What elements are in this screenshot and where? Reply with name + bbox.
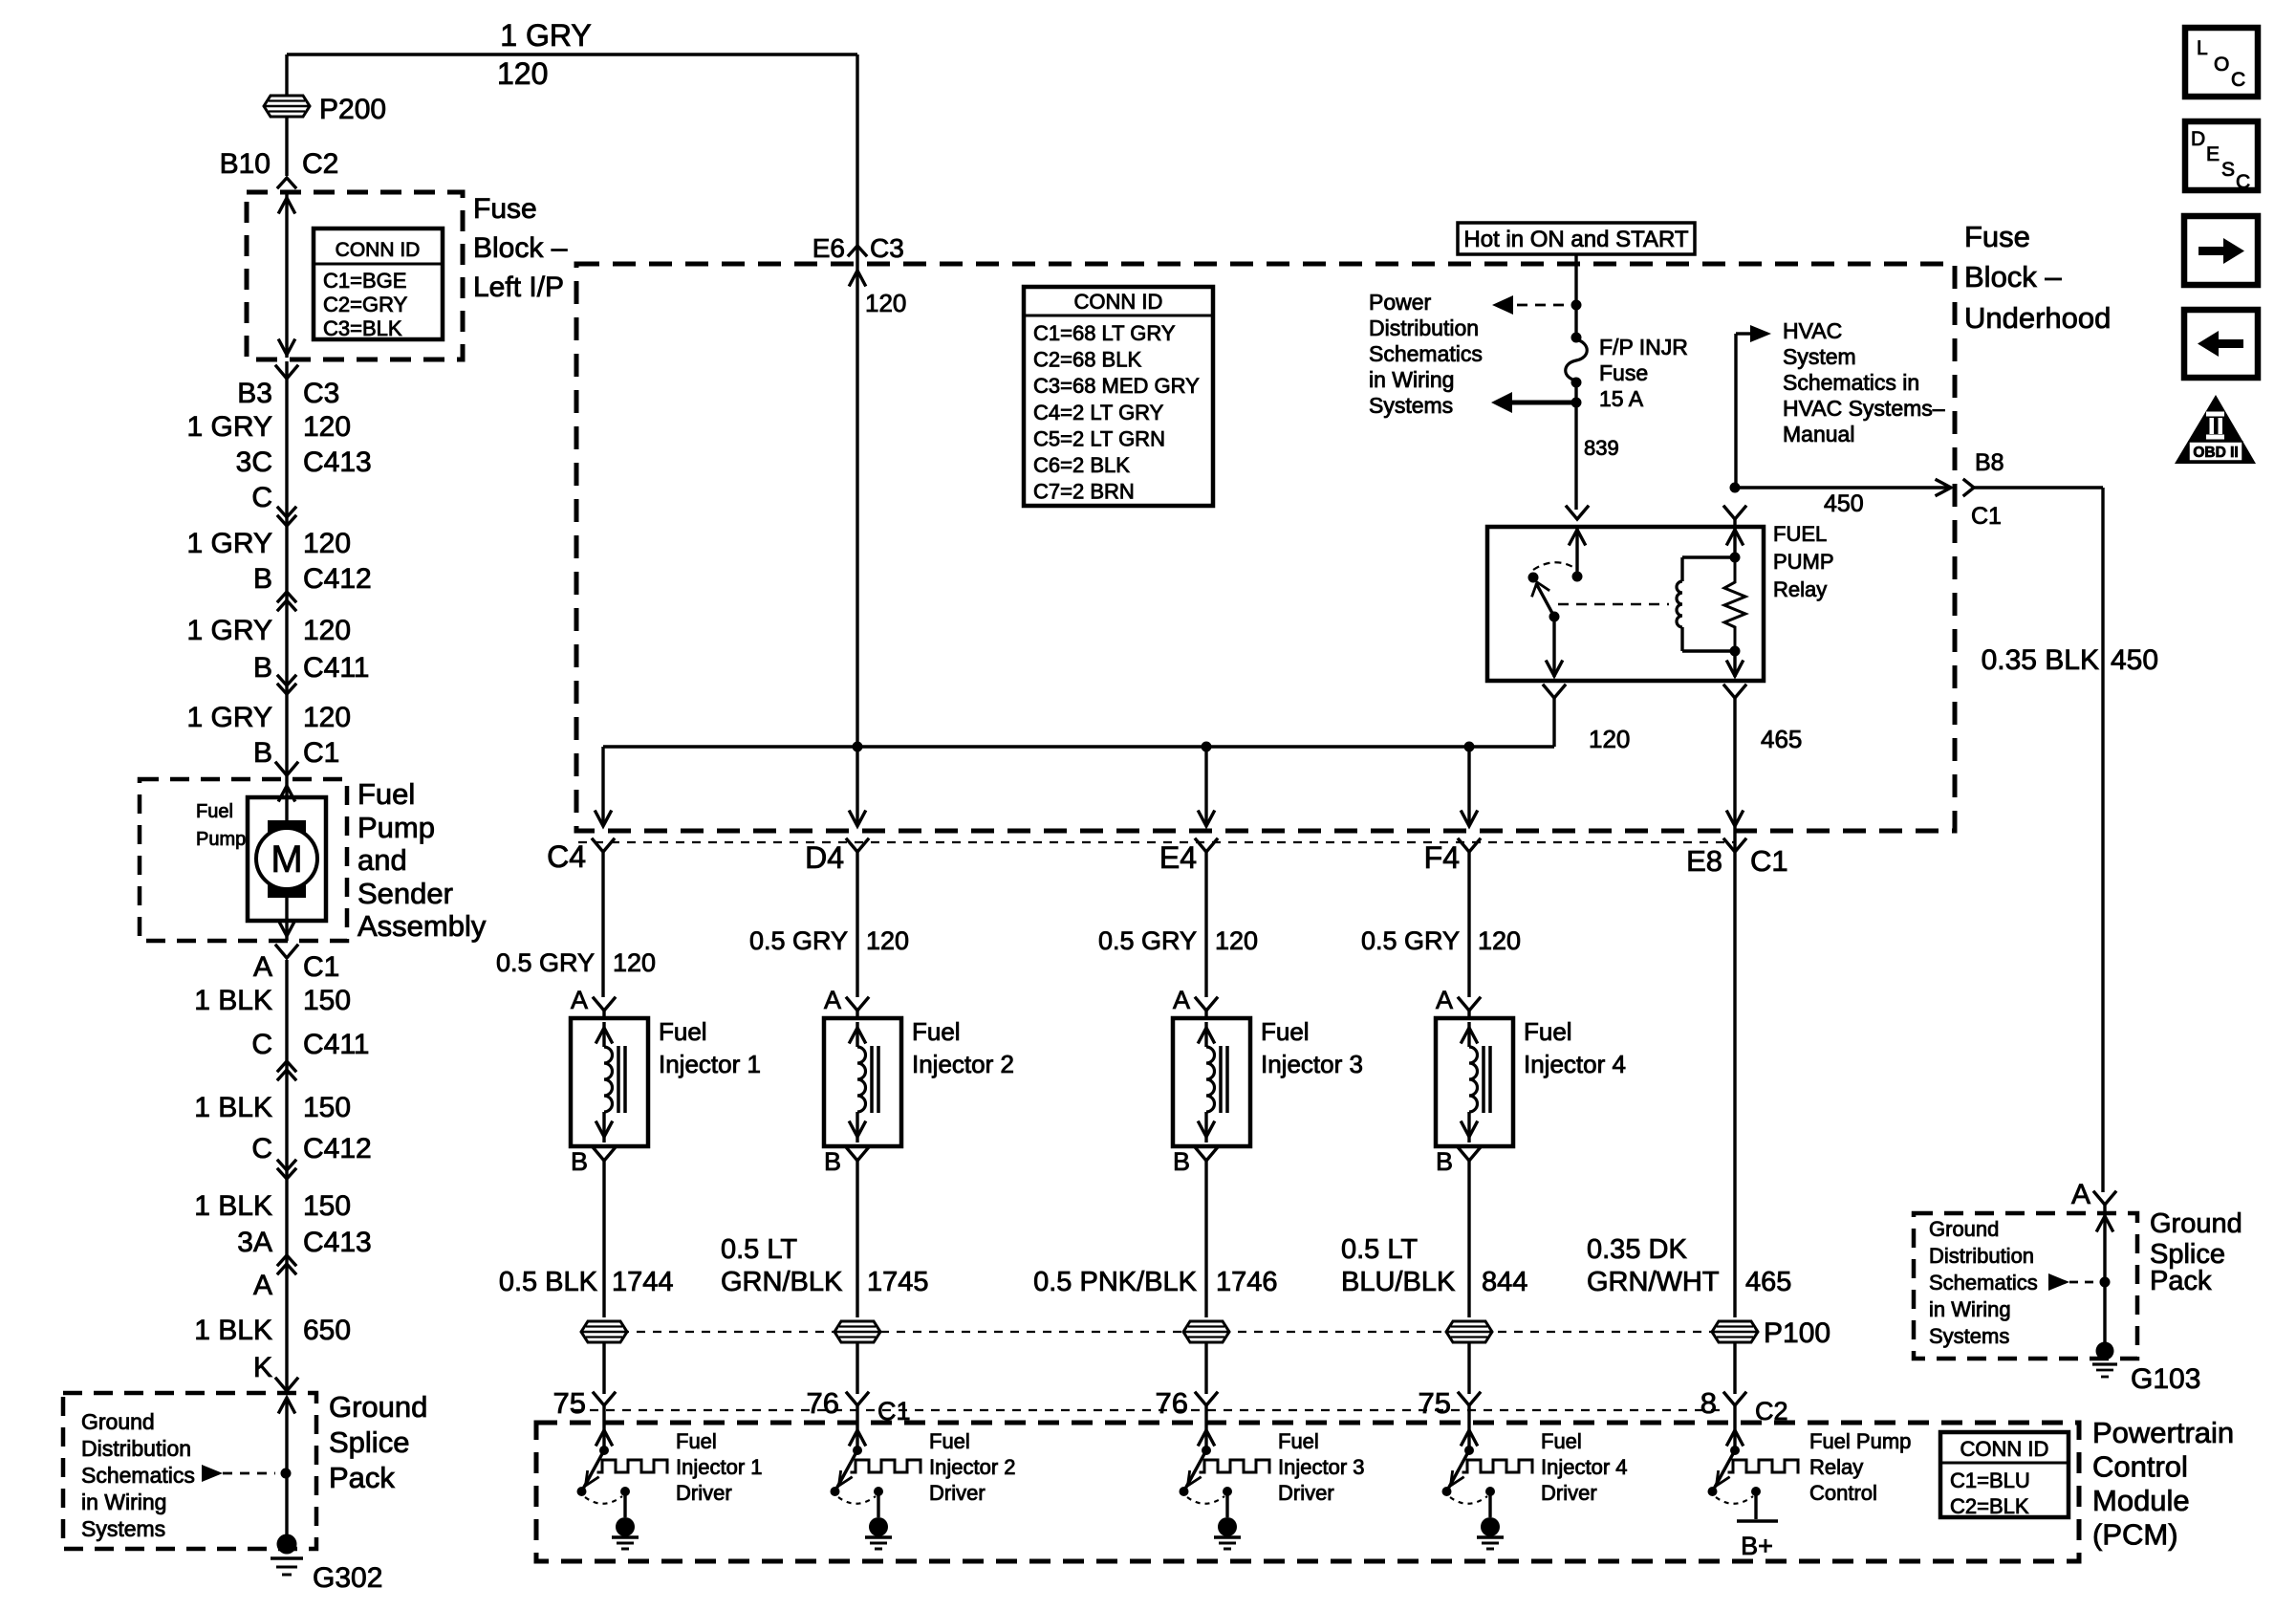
svg-text:S: S xyxy=(2221,159,2235,181)
svg-text:C3: C3 xyxy=(870,233,904,263)
svg-text:120: 120 xyxy=(1215,926,1258,955)
svg-text:1745: 1745 xyxy=(867,1267,929,1297)
svg-text:P200: P200 xyxy=(319,94,386,125)
svg-text:P100: P100 xyxy=(1764,1317,1830,1349)
svg-text:B: B xyxy=(571,1147,588,1176)
svg-text:75: 75 xyxy=(1419,1386,1451,1420)
svg-text:C413: C413 xyxy=(303,446,372,478)
svg-text:3C: 3C xyxy=(236,446,272,478)
svg-text:C3=68 MED GRY: C3=68 MED GRY xyxy=(1033,374,1200,398)
svg-text:Pump: Pump xyxy=(357,811,435,844)
svg-text:120: 120 xyxy=(865,289,906,317)
svg-text:Schematics: Schematics xyxy=(81,1463,195,1488)
svg-text:844: 844 xyxy=(1482,1267,1527,1297)
svg-text:1744: 1744 xyxy=(612,1267,674,1297)
svg-text:C1: C1 xyxy=(303,737,339,769)
svg-text:Pump: Pump xyxy=(196,829,246,850)
svg-text:E4: E4 xyxy=(1159,840,1197,875)
svg-text:G302: G302 xyxy=(313,1562,382,1594)
svg-text:C3=BLK: C3=BLK xyxy=(323,316,402,340)
svg-text:Injector 4: Injector 4 xyxy=(1541,1455,1628,1479)
svg-text:C411: C411 xyxy=(303,1029,370,1060)
svg-text:15 A: 15 A xyxy=(1599,386,1644,411)
svg-text:CONN ID: CONN ID xyxy=(1960,1437,2049,1461)
svg-text:B: B xyxy=(253,737,272,769)
svg-text:1 BLK: 1 BLK xyxy=(194,1190,272,1222)
svg-text:Schematics: Schematics xyxy=(1929,1271,2038,1295)
svg-text:450: 450 xyxy=(1824,490,1864,517)
svg-text:75: 75 xyxy=(553,1386,586,1420)
svg-text:450: 450 xyxy=(2111,644,2158,676)
svg-text:Distribution: Distribution xyxy=(1369,315,1479,340)
svg-text:F4: F4 xyxy=(1424,840,1460,875)
svg-text:465: 465 xyxy=(1745,1267,1791,1297)
svg-text:Driver: Driver xyxy=(676,1481,732,1505)
svg-text:Fuse: Fuse xyxy=(1599,360,1648,385)
svg-text:C6=2 BLK: C6=2 BLK xyxy=(1033,453,1130,477)
svg-text:B3: B3 xyxy=(237,378,272,409)
svg-text:Injector 1: Injector 1 xyxy=(659,1050,761,1078)
svg-text:150: 150 xyxy=(303,1190,351,1222)
svg-text:A: A xyxy=(1436,986,1453,1014)
svg-text:and: and xyxy=(357,843,407,877)
svg-text:76: 76 xyxy=(1156,1386,1188,1420)
svg-text:A: A xyxy=(253,1270,272,1301)
svg-text:120: 120 xyxy=(497,56,548,91)
svg-text:0.5 GRY: 0.5 GRY xyxy=(749,926,848,955)
svg-text:Control: Control xyxy=(1809,1481,1877,1505)
svg-text:3A: 3A xyxy=(237,1227,272,1258)
svg-text:Injector 2: Injector 2 xyxy=(929,1455,1016,1479)
svg-text:150: 150 xyxy=(303,1092,351,1123)
svg-text:0.5 GRY: 0.5 GRY xyxy=(1098,926,1197,955)
svg-text:Hot in ON and START: Hot in ON and START xyxy=(1463,227,1689,252)
svg-text:C412: C412 xyxy=(303,1133,372,1164)
svg-text:Pack: Pack xyxy=(2150,1266,2212,1296)
svg-text:C411: C411 xyxy=(303,652,370,684)
svg-text:B: B xyxy=(1436,1147,1453,1176)
svg-text:FUEL: FUEL xyxy=(1773,522,1827,546)
svg-text:C5=2 LT GRN: C5=2 LT GRN xyxy=(1033,426,1165,450)
svg-text:E8: E8 xyxy=(1686,844,1722,878)
svg-text:CONN ID: CONN ID xyxy=(1074,290,1163,314)
svg-text:Pack: Pack xyxy=(329,1461,395,1494)
svg-text:GRN/WHT: GRN/WHT xyxy=(1587,1267,1720,1297)
svg-text:BLU/BLK: BLU/BLK xyxy=(1341,1267,1456,1297)
svg-text:M: M xyxy=(271,838,302,881)
svg-text:150: 150 xyxy=(303,985,351,1016)
svg-text:0.5 GRY: 0.5 GRY xyxy=(496,948,595,977)
svg-text:1 GRY: 1 GRY xyxy=(187,528,273,559)
svg-text:C: C xyxy=(2236,171,2250,193)
svg-text:C3: C3 xyxy=(303,378,339,409)
svg-text:120: 120 xyxy=(866,926,909,955)
svg-text:Assembly: Assembly xyxy=(357,909,487,943)
svg-text:Ground: Ground xyxy=(329,1390,427,1424)
svg-text:1746: 1746 xyxy=(1216,1267,1278,1297)
svg-text:Driver: Driver xyxy=(1541,1481,1597,1505)
svg-text:Sender: Sender xyxy=(357,877,453,910)
svg-text:(PCM): (PCM) xyxy=(2092,1518,2178,1552)
svg-text:O: O xyxy=(2214,54,2229,76)
svg-text:Systems: Systems xyxy=(81,1516,165,1541)
svg-text:Driver: Driver xyxy=(929,1481,986,1505)
svg-text:C413: C413 xyxy=(303,1227,372,1258)
svg-text:in Wiring: in Wiring xyxy=(81,1490,166,1514)
svg-text:Injector 3: Injector 3 xyxy=(1261,1050,1363,1078)
svg-text:0.35 DK: 0.35 DK xyxy=(1587,1234,1687,1265)
svg-text:0.35 BLK: 0.35 BLK xyxy=(1982,644,2099,676)
svg-text:76: 76 xyxy=(807,1386,839,1420)
svg-text:E6: E6 xyxy=(812,233,845,263)
svg-text:B: B xyxy=(253,652,272,684)
svg-text:8: 8 xyxy=(1700,1386,1717,1420)
svg-text:1 GRY: 1 GRY xyxy=(187,615,273,646)
svg-text:0.5 BLK: 0.5 BLK xyxy=(499,1267,598,1297)
svg-text:C2: C2 xyxy=(302,148,338,180)
svg-text:120: 120 xyxy=(303,411,351,443)
svg-text:Injector 4: Injector 4 xyxy=(1524,1050,1626,1078)
svg-text:B: B xyxy=(253,563,272,595)
svg-text:K: K xyxy=(253,1352,272,1383)
svg-text:Module: Module xyxy=(2092,1484,2190,1517)
svg-text:C: C xyxy=(2231,69,2245,91)
svg-text:B8: B8 xyxy=(1975,449,2004,476)
svg-text:A: A xyxy=(824,986,841,1014)
svg-text:Fuel: Fuel xyxy=(659,1017,707,1046)
svg-text:B: B xyxy=(1173,1147,1190,1176)
svg-text:Fuel: Fuel xyxy=(1524,1017,1572,1046)
svg-text:1 GRY: 1 GRY xyxy=(500,18,591,53)
svg-text:Ground: Ground xyxy=(2150,1208,2242,1239)
svg-text:D4: D4 xyxy=(805,840,844,875)
svg-text:Schematics: Schematics xyxy=(1369,341,1483,366)
svg-text:Fuel: Fuel xyxy=(912,1017,961,1046)
svg-text:Fuse: Fuse xyxy=(1964,220,2030,253)
svg-text:Power: Power xyxy=(1369,290,1432,315)
svg-text:C: C xyxy=(251,482,272,513)
svg-text:120: 120 xyxy=(613,948,656,977)
svg-text:E: E xyxy=(2206,143,2220,165)
svg-text:Driver: Driver xyxy=(1278,1481,1334,1505)
svg-text:Injector 3: Injector 3 xyxy=(1278,1455,1365,1479)
svg-text:Distribution: Distribution xyxy=(1929,1244,2034,1268)
svg-text:Fuse: Fuse xyxy=(473,193,537,225)
svg-text:Fuel: Fuel xyxy=(1541,1429,1582,1453)
svg-text:C2=68 BLK: C2=68 BLK xyxy=(1033,348,1141,372)
svg-text:CONN ID: CONN ID xyxy=(336,239,421,261)
svg-text:Block –: Block – xyxy=(473,232,568,264)
svg-text:C7=2 BRN: C7=2 BRN xyxy=(1033,480,1135,504)
svg-text:Injector 2: Injector 2 xyxy=(912,1050,1014,1078)
svg-text:C1=68 LT GRY: C1=68 LT GRY xyxy=(1033,321,1176,345)
svg-text:839: 839 xyxy=(1584,436,1619,460)
svg-text:0.5 LT: 0.5 LT xyxy=(721,1234,797,1265)
svg-text:120: 120 xyxy=(1478,926,1521,955)
svg-text:Systems: Systems xyxy=(1929,1324,2009,1348)
svg-text:C412: C412 xyxy=(303,563,372,595)
svg-text:650: 650 xyxy=(303,1315,351,1346)
svg-text:Control: Control xyxy=(2092,1450,2188,1484)
svg-text:A: A xyxy=(2071,1179,2090,1210)
svg-text:Fuel: Fuel xyxy=(357,777,415,811)
svg-text:System: System xyxy=(1783,344,1856,369)
svg-text:Fuel: Fuel xyxy=(1278,1429,1319,1453)
svg-text:Systems: Systems xyxy=(1369,393,1453,418)
svg-text:Ground: Ground xyxy=(1929,1217,1999,1241)
svg-text:0.5 PNK/BLK: 0.5 PNK/BLK xyxy=(1033,1267,1198,1297)
svg-text:120: 120 xyxy=(303,528,351,559)
svg-text:Relay: Relay xyxy=(1773,577,1827,601)
svg-text:HVAC Systems–: HVAC Systems– xyxy=(1783,396,1945,421)
svg-text:Fuel: Fuel xyxy=(196,801,233,822)
svg-text:Ground: Ground xyxy=(81,1409,155,1434)
svg-text:120: 120 xyxy=(303,702,351,733)
svg-text:1 GRY: 1 GRY xyxy=(187,702,273,733)
svg-text:Relay: Relay xyxy=(1809,1455,1863,1479)
svg-text:Fuel: Fuel xyxy=(1261,1017,1310,1046)
svg-text:C1: C1 xyxy=(1750,844,1788,878)
svg-text:Schematics in: Schematics in xyxy=(1783,370,1919,395)
svg-text:Splice: Splice xyxy=(329,1425,409,1459)
svg-text:C1: C1 xyxy=(1971,503,2002,530)
svg-text:A: A xyxy=(1173,986,1190,1014)
svg-text:120: 120 xyxy=(1589,725,1630,753)
svg-text:1 BLK: 1 BLK xyxy=(194,1315,272,1346)
svg-text:Distribution: Distribution xyxy=(81,1436,191,1461)
svg-text:C4: C4 xyxy=(547,839,586,874)
svg-text:PUMP: PUMP xyxy=(1773,550,1834,574)
svg-text:C4=2 LT GRY: C4=2 LT GRY xyxy=(1033,401,1164,424)
svg-text:C: C xyxy=(251,1133,272,1164)
svg-text:Manual: Manual xyxy=(1783,422,1854,446)
svg-text:1 BLK: 1 BLK xyxy=(194,985,272,1016)
svg-text:B: B xyxy=(824,1147,841,1176)
svg-text:0.5 GRY: 0.5 GRY xyxy=(1361,926,1460,955)
svg-text:Fuel: Fuel xyxy=(676,1429,717,1453)
svg-text:in Wiring: in Wiring xyxy=(1369,367,1454,392)
svg-text:HVAC: HVAC xyxy=(1783,318,1842,343)
svg-text:465: 465 xyxy=(1761,725,1802,753)
svg-text:Block –: Block – xyxy=(1964,260,2062,294)
svg-text:OBD II: OBD II xyxy=(2193,445,2238,461)
svg-text:0.5 LT: 0.5 LT xyxy=(1341,1234,1418,1265)
svg-text:C2=GRY: C2=GRY xyxy=(323,293,408,316)
svg-text:C2=BLK: C2=BLK xyxy=(1950,1494,2029,1518)
svg-text:D: D xyxy=(2191,128,2205,150)
svg-text:G103: G103 xyxy=(2131,1363,2200,1395)
svg-text:C1=BLU: C1=BLU xyxy=(1950,1469,2030,1492)
svg-text:Injector 1: Injector 1 xyxy=(676,1455,763,1479)
svg-text:Left I/P: Left I/P xyxy=(473,272,564,303)
svg-text:B10: B10 xyxy=(220,148,271,180)
svg-text:Fuel Pump: Fuel Pump xyxy=(1809,1429,1911,1453)
svg-text:F/P INJR: F/P INJR xyxy=(1599,335,1688,359)
svg-text:Powertrain: Powertrain xyxy=(2092,1416,2234,1449)
svg-text:Underhood: Underhood xyxy=(1964,301,2111,335)
svg-text:B+: B+ xyxy=(1741,1532,1773,1560)
svg-text:C: C xyxy=(251,1029,272,1060)
svg-text:A: A xyxy=(571,986,588,1014)
svg-text:GRN/BLK: GRN/BLK xyxy=(721,1267,843,1297)
svg-text:A: A xyxy=(253,951,272,983)
svg-text:L: L xyxy=(2197,37,2208,59)
svg-text:C1: C1 xyxy=(303,951,339,983)
svg-text:120: 120 xyxy=(303,615,351,646)
svg-text:Fuel: Fuel xyxy=(929,1429,970,1453)
svg-text:1 GRY: 1 GRY xyxy=(187,411,273,443)
svg-text:1 BLK: 1 BLK xyxy=(194,1092,272,1123)
svg-text:in Wiring: in Wiring xyxy=(1929,1297,2011,1321)
svg-text:C1=BGE: C1=BGE xyxy=(323,269,406,293)
